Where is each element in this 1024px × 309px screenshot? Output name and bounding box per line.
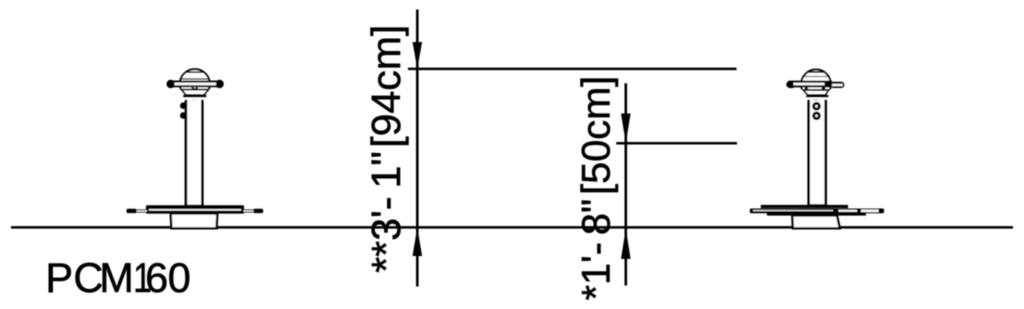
svg-text:P: P xyxy=(45,254,73,301)
svg-text:6: 6 xyxy=(145,254,168,301)
svg-text:0: 0 xyxy=(168,254,191,301)
svg-text:*1'-8" [50cm]: *1'-8" [50cm] xyxy=(575,76,619,301)
svg-text:**3'-1" [94cm]: **3'-1" [94cm] xyxy=(363,25,409,273)
svg-text:M: M xyxy=(99,254,134,301)
